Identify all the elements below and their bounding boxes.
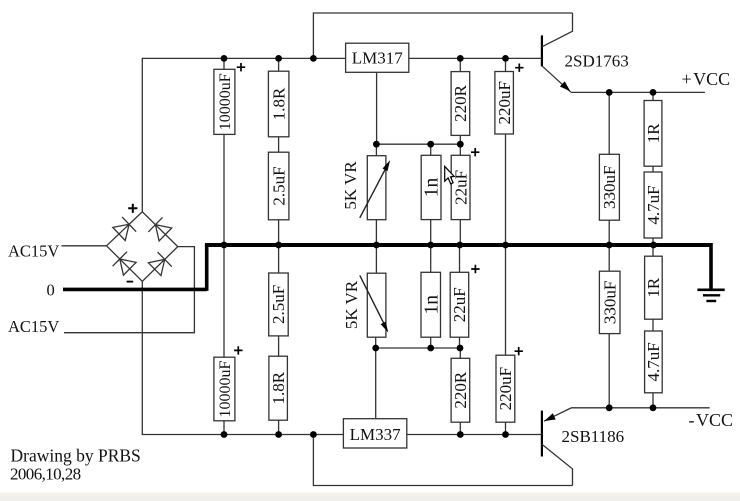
wire xyxy=(608,220,610,243)
svg-text:22uF: 22uF xyxy=(450,287,469,322)
transistor Q2 2SB1186 (PNP) xyxy=(542,408,573,486)
wire LM317 output to Q1 base xyxy=(409,57,542,59)
svg-text:4.7uF: 4.7uF xyxy=(644,185,663,224)
junction xyxy=(427,345,434,352)
svg-text:2.5uF: 2.5uF xyxy=(269,166,288,205)
capacitor 10000uF (lower) + mark xyxy=(234,346,242,354)
node AC15V (lower input) xyxy=(8,317,59,336)
resistor 220R (upper) xyxy=(451,72,470,136)
wire bridge + to raw + rail xyxy=(141,58,143,212)
wire xyxy=(505,247,507,356)
svg-text:2SB1186: 2SB1186 xyxy=(562,427,625,446)
wire ADJ net lower (VR/1n/22uF bottoms) xyxy=(376,347,461,349)
wire xyxy=(278,247,280,273)
capacitor 10000uF (upper) xyxy=(214,69,235,134)
svg-text:- VCC: - VCC xyxy=(689,410,734,430)
capacitor 330uF (lower) xyxy=(599,271,620,333)
wire xyxy=(375,337,377,348)
wire xyxy=(430,220,432,244)
wire xyxy=(608,247,610,272)
junction xyxy=(221,242,228,249)
wire xyxy=(459,220,461,244)
junction xyxy=(502,431,509,438)
resistor 220R (lower) xyxy=(451,358,470,422)
wire xyxy=(459,247,461,273)
wire xyxy=(652,319,654,331)
wire xyxy=(652,92,654,100)
junction xyxy=(650,89,657,96)
title date 2006,10,28 xyxy=(10,465,81,484)
wire xyxy=(608,334,610,408)
wire +VCC rail xyxy=(571,91,705,93)
svg-text:10000uF: 10000uF xyxy=(217,360,234,417)
capacitor 10000uF (lower) xyxy=(214,357,235,421)
transistor Q2 label 2SB1186 xyxy=(562,427,625,446)
junction xyxy=(427,242,434,249)
capacitor 1n (upper) xyxy=(421,155,443,219)
wire xyxy=(459,58,461,71)
svg-text:2.5uF: 2.5uF xyxy=(269,285,288,324)
capacitor 220uF (upper) + mark xyxy=(515,64,523,72)
wire xyxy=(430,144,432,155)
svg-text:2SD1763: 2SD1763 xyxy=(565,52,629,71)
node GND bus (thick) xyxy=(205,243,711,247)
junction xyxy=(457,55,464,62)
svg-text:10000uF: 10000uF xyxy=(217,73,234,130)
wire xyxy=(430,337,432,348)
svg-text:1n: 1n xyxy=(422,177,443,197)
wire bridge right vertex to lower AC input xyxy=(64,247,194,333)
capacitor 22uF (upper) + mark xyxy=(471,148,479,156)
capacitor 330uF (upper) xyxy=(599,154,619,220)
junction xyxy=(457,141,464,148)
junction xyxy=(606,404,613,411)
wire xyxy=(223,247,225,358)
svg-text:AC15V: AC15V xyxy=(8,242,59,261)
potentiometer 5K VR (upper) label xyxy=(341,161,360,210)
svg-text:220R: 220R xyxy=(451,371,470,409)
junction xyxy=(606,89,613,96)
svg-text:1n: 1n xyxy=(421,295,442,315)
svg-text:1R: 1R xyxy=(644,123,663,144)
svg-text:5K VR: 5K VR xyxy=(342,280,361,329)
svg-text:220R: 220R xyxy=(451,84,470,122)
capacitor 220uF (upper) xyxy=(495,72,514,135)
mouse cursor xyxy=(445,166,455,184)
wire xyxy=(652,238,654,243)
wire AC input upper to bridge left vertex xyxy=(62,245,107,247)
wire LM317 ADJ pin xyxy=(376,72,378,144)
bridge + terminal xyxy=(128,204,137,213)
junction xyxy=(456,242,463,249)
capacitor 2.5uF (lower) xyxy=(269,273,289,336)
junction xyxy=(373,141,380,148)
capacitor 4.7uF (upper) xyxy=(644,172,663,238)
svg-text:1.8R: 1.8R xyxy=(269,87,288,120)
wire bottom bootstrap from raw - rail to Q2 collector xyxy=(313,435,572,486)
resistor 1R (lower) xyxy=(644,256,663,319)
wire xyxy=(375,144,377,156)
bridge - terminal xyxy=(127,281,134,283)
svg-text:5K VR: 5K VR xyxy=(341,161,360,210)
junction xyxy=(606,242,613,249)
junction xyxy=(275,242,282,249)
svg-text:0: 0 xyxy=(47,281,55,300)
junction xyxy=(457,431,464,438)
regulator LM317 xyxy=(346,43,409,72)
wire xyxy=(223,421,225,435)
svg-text:22uF: 22uF xyxy=(451,170,470,205)
junction xyxy=(650,404,657,411)
wire xyxy=(652,393,654,408)
junction xyxy=(650,242,657,249)
wire xyxy=(278,336,280,356)
bridge rectifier outline xyxy=(107,212,178,281)
junction xyxy=(373,242,380,249)
wire xyxy=(375,247,377,274)
transistor Q1 label 2SD1763 xyxy=(565,52,629,71)
wire xyxy=(375,220,377,244)
wire xyxy=(223,134,225,243)
junction xyxy=(275,55,282,62)
wire LM337 output to Q2 base xyxy=(407,434,542,436)
wire ground drop (thick) xyxy=(709,243,713,289)
regulator LM337 xyxy=(343,419,406,448)
wire xyxy=(652,247,654,257)
node +VCC xyxy=(682,69,731,89)
junction xyxy=(310,431,317,438)
bridge diode (AC-L to +) xyxy=(113,217,136,241)
resistor 1.8R (upper) xyxy=(268,71,289,137)
node 0 (input common) xyxy=(47,281,55,300)
junction xyxy=(275,431,282,438)
resistor 1.8R (lower) xyxy=(269,356,288,420)
potentiometer 5K VR (upper) wiper arrow xyxy=(360,160,390,218)
svg-text:1.8R: 1.8R xyxy=(269,371,288,404)
svg-text:330uF: 330uF xyxy=(600,166,619,209)
node -VCC xyxy=(689,410,734,430)
potentiometer 5K VR (lower) xyxy=(367,273,386,337)
wire xyxy=(459,135,461,144)
wire top bootstrap from node at raw+ rail to Q1 collector xyxy=(313,13,572,58)
junction xyxy=(502,242,509,249)
potentiometer 5K VR (lower) wiper arrow xyxy=(360,275,389,332)
wire xyxy=(459,348,461,358)
wire raw - rail (bridge to LM337 input) xyxy=(142,434,344,436)
node AC15V (upper input) xyxy=(8,242,59,261)
capacitor 1n (lower) xyxy=(421,272,442,337)
capacitor 2.5uF (upper) xyxy=(268,152,289,220)
bridge diode (- to AC-R) xyxy=(148,252,171,276)
wire 0V riser to ground bus (thick) xyxy=(205,245,209,291)
wire xyxy=(278,220,280,244)
capacitor 4.7uF (lower) xyxy=(644,331,663,393)
wire xyxy=(223,58,225,69)
junction xyxy=(221,55,228,62)
junction xyxy=(221,431,228,438)
svg-text:LM337: LM337 xyxy=(350,425,402,444)
wire xyxy=(278,420,280,434)
resistor 1R (upper) xyxy=(644,101,663,167)
capacitor 22uF (lower) xyxy=(450,272,469,337)
wire -VCC rail xyxy=(571,407,710,409)
junction xyxy=(310,55,317,62)
wire ADJ net upper (VR/1n/22uF tops) xyxy=(376,143,460,145)
capacitor 10000uF (upper) + mark xyxy=(237,63,245,71)
wire xyxy=(608,92,610,154)
wire raw + rail (bridge to LM317 input) xyxy=(142,57,346,59)
wire xyxy=(505,422,507,434)
svg-text:330uF: 330uF xyxy=(600,281,619,324)
capacitor 220uF (lower) xyxy=(496,355,515,422)
wire xyxy=(278,137,280,152)
wire xyxy=(278,58,280,71)
svg-text:1R: 1R xyxy=(644,277,663,298)
potentiometer 5K VR (upper) xyxy=(367,156,386,220)
wire bridge - to raw - rail xyxy=(141,281,143,434)
svg-text:2006,10,28: 2006,10,28 xyxy=(10,465,81,484)
ground xyxy=(697,290,724,301)
junction xyxy=(427,141,434,148)
svg-text:Drawing by PRBS: Drawing by PRBS xyxy=(11,446,141,466)
capacitor 220uF (lower) + mark xyxy=(515,347,523,355)
svg-text:AC15V: AC15V xyxy=(8,317,59,336)
wire xyxy=(505,58,507,71)
wire xyxy=(652,166,654,172)
capacitor 22uF (upper) xyxy=(451,155,470,219)
svg-text:220uF: 220uF xyxy=(495,81,514,124)
transistor Q1 2SD1763 (NPN) xyxy=(542,13,573,92)
bridge diode (AC-R to +) xyxy=(148,217,171,241)
potentiometer 5K VR (lower) label xyxy=(342,280,361,329)
bridge diode (- to AC-L) xyxy=(113,252,137,276)
title Drawing by PRBS xyxy=(11,446,141,466)
wire LM337 ADJ pin xyxy=(375,348,377,419)
capacitor 22uF (lower) + mark xyxy=(471,265,479,273)
svg-text:LM317: LM317 xyxy=(352,49,404,68)
junction xyxy=(372,345,379,352)
wire xyxy=(459,144,461,155)
wire 0V input (thick) xyxy=(63,288,207,292)
wire xyxy=(459,337,461,348)
junction xyxy=(457,345,464,352)
svg-text:220uF: 220uF xyxy=(496,367,515,410)
wire xyxy=(430,247,432,273)
wire xyxy=(459,422,461,434)
wire xyxy=(505,134,507,243)
junction xyxy=(502,55,509,62)
svg-text:+ VCC: + VCC xyxy=(682,69,731,89)
svg-text:4.7uF: 4.7uF xyxy=(644,342,663,381)
window edge strip xyxy=(0,493,740,501)
